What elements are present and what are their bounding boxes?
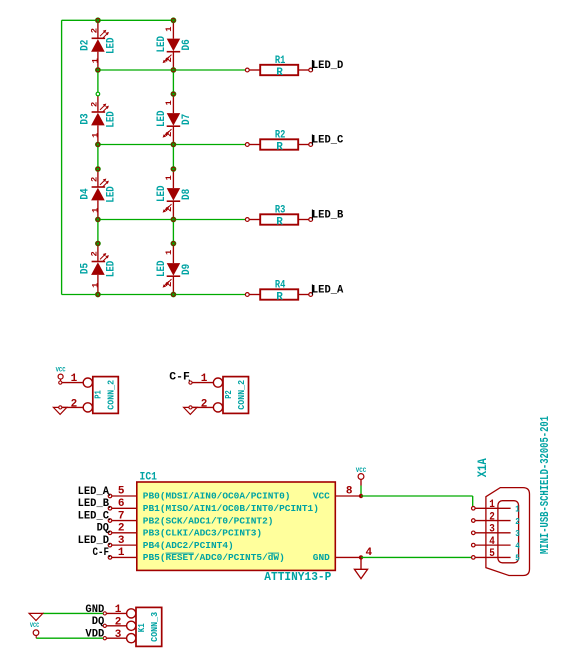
svg-text:X1A: X1A: [476, 458, 490, 477]
junction 14: [95, 166, 101, 172]
svg-text:LED: LED: [156, 36, 168, 53]
junction 7: [95, 217, 101, 223]
wire left rail: [61, 20, 63, 294]
svg-text:8: 8: [346, 486, 353, 498]
wire row LED_B: [98, 219, 246, 221]
node VDD label at K1: [85, 629, 106, 641]
svg-text:1: 1: [164, 250, 174, 255]
IC1 pin 3 (PB4): [108, 535, 233, 551]
svg-text:LED_D: LED_D: [78, 535, 110, 547]
junction 13: [171, 241, 177, 247]
junction at IC GND: [359, 555, 363, 559]
wire right column segment 2: [172, 145, 174, 170]
wire GND to K1: [43, 612, 103, 614]
svg-text:K1: K1: [136, 623, 147, 632]
svg-text:D6: D6: [181, 39, 193, 50]
overline RESET: [166, 552, 194, 554]
svg-text:R4: R4: [275, 280, 286, 292]
X1A pin 3: [472, 524, 521, 540]
svg-text:DQ: DQ: [92, 616, 105, 628]
node LED_A label at IC1: [78, 486, 110, 498]
VCC supply at P1: [56, 367, 66, 385]
svg-text:LED: LED: [105, 186, 117, 203]
node LED_D label at IC1: [78, 535, 110, 547]
X1A pin 2: [472, 511, 521, 527]
svg-text:5: 5: [118, 486, 125, 498]
svg-text:1: 1: [90, 133, 100, 138]
svg-text:P2: P2: [223, 390, 234, 399]
node LED_A label: [312, 284, 344, 296]
svg-text:2: 2: [489, 511, 495, 523]
junction 2: [171, 17, 177, 23]
svg-text:4: 4: [489, 536, 495, 548]
svg-text:D2: D2: [80, 40, 92, 51]
ground at K1: [29, 613, 43, 620]
wire top bus: [62, 19, 174, 21]
svg-text:LED_C: LED_C: [78, 510, 110, 522]
svg-text:LED_B: LED_B: [312, 209, 344, 221]
ground at IC1: [354, 557, 367, 578]
resistor R4: [245, 280, 312, 304]
wire row LED_A: [62, 294, 246, 296]
svg-text:7: 7: [118, 510, 125, 522]
svg-text:LED_B: LED_B: [78, 498, 110, 510]
svg-text:R: R: [276, 291, 283, 303]
IC1 pin 8 VCC: [313, 486, 361, 502]
svg-text:D5: D5: [80, 263, 92, 275]
LED D7: [156, 94, 193, 145]
svg-text:2: 2: [515, 516, 520, 527]
junction at IC VCC: [359, 494, 363, 498]
IC1 pin 5 (PB0): [108, 486, 290, 502]
svg-text:1: 1: [115, 604, 122, 616]
svg-text:C-F: C-F: [93, 547, 110, 559]
svg-text:1: 1: [515, 504, 520, 515]
connector K1 CONN_3: [106, 604, 161, 647]
node LED_B label: [312, 209, 344, 221]
LED D3: [80, 94, 118, 145]
ground at P2: [184, 406, 197, 415]
wire GND net to X1A: [361, 556, 473, 558]
X1A pin 1: [472, 499, 521, 515]
junction 11: [171, 91, 177, 97]
connector X1A outline: [486, 488, 530, 576]
svg-text:CONN_3: CONN_3: [149, 612, 160, 642]
VCC supply at IC1: [356, 467, 367, 496]
svg-text:4: 4: [515, 540, 520, 551]
ground at P1: [53, 406, 66, 415]
junction 12: [171, 166, 177, 172]
svg-text:LED: LED: [156, 110, 168, 127]
svg-text:VCC: VCC: [313, 491, 330, 502]
svg-text:LED_A: LED_A: [78, 486, 110, 498]
junction 9: [95, 292, 101, 298]
svg-text:6: 6: [118, 498, 125, 510]
svg-text:MINI-USB-SCHIELD-32005-201: MINI-USB-SCHIELD-32005-201: [538, 416, 552, 554]
svg-text:2: 2: [164, 57, 174, 62]
svg-text:ATTINY13-P: ATTINY13-P: [264, 571, 331, 584]
IC IC1 ATTINY13-P body: [137, 482, 335, 570]
junction 10: [171, 292, 177, 298]
connector X1A inner shell: [498, 501, 519, 563]
wire left column segment 3: [97, 220, 99, 244]
svg-text:LED_D: LED_D: [312, 60, 344, 72]
svg-text:1: 1: [90, 283, 100, 288]
svg-text:VCC: VCC: [30, 622, 40, 629]
junction 15: [95, 241, 101, 247]
svg-text:1: 1: [118, 547, 125, 559]
node LED_C label: [312, 134, 344, 146]
node DQ label at IC1: [97, 523, 110, 535]
svg-text:2: 2: [164, 132, 174, 137]
svg-text:IC1: IC1: [140, 471, 158, 483]
svg-text:D9: D9: [181, 264, 193, 275]
svg-text:2: 2: [90, 177, 100, 182]
svg-text:LED: LED: [105, 111, 117, 128]
svg-text:1: 1: [164, 27, 174, 32]
svg-text:3: 3: [118, 535, 125, 547]
overline dW: [268, 552, 279, 554]
wire VCC net to X1A: [361, 495, 473, 497]
svg-text:PB0(MDSI/AIN0/OC0A/PCINT0): PB0(MDSI/AIN0/OC0A/PCINT0): [143, 491, 291, 502]
svg-text:R2: R2: [275, 130, 286, 142]
wire row LED_D: [98, 69, 246, 71]
svg-text:5: 5: [489, 548, 495, 560]
svg-text:5: 5: [515, 553, 520, 564]
junction 5: [95, 142, 101, 148]
wire row LED_C: [98, 144, 246, 146]
svg-text:LED_A: LED_A: [312, 284, 344, 296]
resistor R3: [245, 205, 312, 229]
svg-text:CONN_2: CONN_2: [236, 380, 247, 410]
svg-text:1: 1: [164, 175, 174, 180]
svg-text:D4: D4: [80, 188, 92, 200]
svg-text:R: R: [276, 67, 283, 79]
LED D2: [80, 20, 118, 70]
node LED_C label at IC1: [78, 510, 110, 522]
connector P2 CONN_2: [191, 373, 249, 413]
wire left column segment 2: [97, 145, 99, 170]
svg-text:2: 2: [90, 102, 100, 107]
svg-text:C-F: C-F: [169, 372, 190, 384]
resistor R1: [245, 55, 312, 79]
svg-text:1: 1: [71, 373, 78, 385]
svg-text:R: R: [276, 141, 283, 153]
svg-text:2: 2: [201, 398, 208, 410]
svg-text:3: 3: [115, 629, 122, 641]
LED D8: [156, 169, 193, 220]
wire left column segment 1: [97, 70, 99, 94]
LED D6: [156, 20, 193, 70]
svg-text:LED: LED: [105, 37, 117, 54]
svg-text:PB2(SCK/ADC1/T0/PCINT2): PB2(SCK/ADC1/T0/PCINT2): [143, 515, 274, 526]
junction 1: [95, 17, 101, 23]
svg-text:3: 3: [489, 524, 495, 536]
IC1 pin 6 (PB1): [108, 498, 319, 514]
svg-text:2: 2: [90, 251, 100, 256]
wire VDD to K1: [36, 637, 103, 639]
junction 4: [171, 67, 177, 73]
svg-text:VCC: VCC: [356, 467, 367, 474]
svg-text:CONN_2: CONN_2: [106, 380, 117, 410]
pin end node D3 top: [96, 92, 100, 96]
svg-text:R3: R3: [275, 205, 286, 217]
LED D4: [80, 169, 118, 220]
svg-text:LED_C: LED_C: [312, 134, 344, 146]
IC1 pin 2 (PB3): [108, 523, 262, 539]
svg-text:R: R: [276, 216, 283, 228]
svg-text:DQ: DQ: [97, 523, 110, 535]
svg-text:2: 2: [164, 207, 174, 212]
svg-text:LED: LED: [156, 260, 168, 277]
svg-text:3: 3: [515, 528, 520, 539]
svg-text:LED: LED: [156, 185, 168, 202]
svg-text:D3: D3: [80, 113, 92, 125]
node DQ label at K1: [92, 616, 107, 628]
svg-text:1: 1: [489, 499, 495, 511]
svg-text:1: 1: [90, 208, 100, 213]
node LED_D label: [312, 60, 344, 72]
node C-F label at P2: [169, 372, 192, 385]
junction 3: [95, 67, 101, 73]
wire right column segment 1: [172, 70, 174, 94]
svg-text:R1: R1: [275, 55, 286, 67]
LED D5: [80, 244, 118, 295]
IC1 pin 4 GND: [313, 547, 373, 563]
svg-text:1: 1: [164, 100, 174, 105]
junction 6: [171, 142, 177, 148]
svg-text:VCC: VCC: [56, 367, 66, 374]
svg-text:PB3(CLKI/ADC3/PCINT3): PB3(CLKI/ADC3/PCINT3): [143, 528, 262, 539]
svg-text:GND: GND: [313, 552, 330, 563]
X1A pin 5: [472, 548, 521, 564]
svg-text:LED: LED: [105, 260, 117, 277]
svg-text:2: 2: [115, 616, 122, 628]
wire right column segment 3: [172, 220, 174, 244]
junction 8: [171, 217, 177, 223]
svg-text:1: 1: [201, 373, 208, 385]
svg-text:PB5(RESET/ADC0/PCINT5/dW): PB5(RESET/ADC0/PCINT5/dW): [143, 552, 285, 563]
svg-text:1: 1: [90, 58, 100, 63]
VCC supply at K1: [30, 622, 40, 638]
svg-text:PB4(ADC2/PCINT4): PB4(ADC2/PCINT4): [143, 540, 234, 551]
svg-text:D7: D7: [181, 114, 193, 125]
svg-text:D8: D8: [181, 188, 193, 200]
svg-text:P1: P1: [93, 390, 104, 399]
resistor R2: [245, 130, 312, 154]
node C-F label at IC1: [93, 547, 111, 559]
svg-text:2: 2: [71, 398, 78, 410]
connector P1 CONN_2: [60, 373, 118, 413]
IC1 pin 7 (PB2): [108, 510, 273, 526]
LED D9: [156, 244, 193, 295]
svg-text:2: 2: [90, 28, 100, 33]
IC1 pin 1 (PB5): [108, 547, 285, 563]
X1A pin 4: [472, 536, 521, 552]
svg-text:2: 2: [164, 282, 174, 287]
node GND label at K1: [85, 604, 106, 616]
svg-text:PB1(MISO/AIN1/OC0B/INT0/PCINT1: PB1(MISO/AIN1/OC0B/INT0/PCINT1): [143, 503, 319, 514]
node LED_B label at IC1: [78, 498, 110, 510]
svg-text:2: 2: [118, 523, 125, 535]
